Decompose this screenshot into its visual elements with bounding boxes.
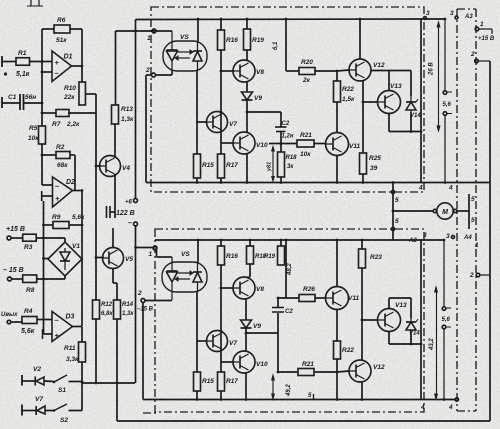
resistor R25 xyxy=(360,153,367,174)
wire rail stub right xyxy=(421,18,445,20)
photodiode inside VS xyxy=(193,50,202,52)
resistor R6 xyxy=(42,28,54,30)
resistor R18 bottom xyxy=(247,246,254,264)
wire xyxy=(361,268,363,360)
top rail bottom block xyxy=(155,239,444,241)
wire xyxy=(197,121,207,123)
transistor V10 xyxy=(233,132,255,154)
wire xyxy=(336,310,338,342)
wire xyxy=(95,319,97,383)
measure 26V arrow xyxy=(438,23,440,130)
capacitor C1 xyxy=(1,97,3,108)
resistor R23 xyxy=(359,249,366,268)
resistor R21 bottom xyxy=(278,371,298,373)
pin 2 bottom optocoupler xyxy=(141,299,145,303)
wire xyxy=(116,319,118,421)
wire xyxy=(73,326,83,328)
resistor R13 xyxy=(112,105,119,124)
wire xyxy=(197,240,199,262)
resistor R15 xyxy=(194,154,201,178)
top rail xyxy=(136,18,422,21)
resistor R18 top xyxy=(278,152,285,177)
diode V14 zener bottom xyxy=(410,298,412,318)
connector pins 5 6 bottom xyxy=(443,240,445,307)
wire xyxy=(72,65,83,67)
wire xyxy=(336,71,338,81)
wire xyxy=(388,71,390,91)
wire xyxy=(42,71,52,73)
resistor R10 xyxy=(79,82,86,105)
wire xyxy=(73,190,83,192)
wire xyxy=(197,19,199,41)
resistor R15 bottom xyxy=(194,372,201,391)
op-amp D3 xyxy=(52,312,73,342)
chain border A4 bottom xyxy=(457,410,476,412)
resistor R17 bottom xyxy=(218,372,225,391)
wire xyxy=(220,133,222,143)
optocoupler VS bottom xyxy=(162,262,207,292)
transistor V10 bottom xyxy=(233,351,255,373)
diode V14 zener xyxy=(410,71,412,97)
pin 1 top optocoupler xyxy=(152,29,156,33)
wire xyxy=(142,303,144,400)
wire xyxy=(277,333,279,372)
resistor R5 xyxy=(39,126,46,144)
chain border right inner xyxy=(456,9,458,411)
LED inside VS bottom xyxy=(171,257,173,271)
wire xyxy=(74,155,76,191)
capacitor C2 top xyxy=(280,112,282,127)
node 122V negative xyxy=(134,222,138,226)
wire xyxy=(245,373,247,400)
wire xyxy=(246,50,248,60)
resistor R4 xyxy=(22,317,37,324)
transistor V7 top block xyxy=(207,112,228,133)
wire xyxy=(220,352,222,362)
resistor R2 xyxy=(42,154,56,156)
switch S2 xyxy=(45,410,54,412)
wire xyxy=(95,113,97,300)
transistor V11 bottom xyxy=(326,287,349,310)
wire xyxy=(336,156,338,183)
transistor V13 xyxy=(378,91,401,114)
resistor R16 xyxy=(218,30,225,50)
wire xyxy=(246,154,248,183)
transistor V4 xyxy=(96,165,101,167)
diode V7 xyxy=(21,405,23,416)
connector pins 5 6 top xyxy=(444,19,446,91)
resistor R22 bottom xyxy=(334,341,341,359)
wire xyxy=(112,269,114,284)
wire xyxy=(41,62,43,127)
wire from pin1 row xyxy=(115,31,117,105)
wire xyxy=(388,298,390,309)
resistor R14 xyxy=(114,300,121,319)
wire xyxy=(117,420,490,422)
transistor V5 xyxy=(96,257,104,259)
transistor V8 xyxy=(233,60,255,82)
wire xyxy=(245,328,247,351)
wire xyxy=(220,265,222,372)
wire xyxy=(81,362,83,411)
op-amp D2 xyxy=(53,177,73,207)
resistor R26 xyxy=(278,297,299,299)
wire node to RC xyxy=(247,111,281,113)
wire xyxy=(82,382,135,384)
resistor R3 xyxy=(23,234,37,241)
resistor R9 xyxy=(44,224,54,226)
resistor R16 bottom xyxy=(218,246,225,265)
LED inside VS xyxy=(171,31,173,50)
chain border bottom xyxy=(143,412,156,414)
wire node row bottom xyxy=(246,332,278,334)
wire xyxy=(44,258,49,260)
wire xyxy=(196,292,198,372)
transistor V13 bottom xyxy=(378,309,401,332)
wire xyxy=(30,61,53,63)
rectifier bridge V1 xyxy=(48,242,82,276)
diode V9 xyxy=(242,92,253,100)
wire xyxy=(30,0,32,6)
wire xyxy=(81,259,83,326)
chain border right outer xyxy=(475,9,477,411)
wire xyxy=(114,174,116,218)
resistor R19 xyxy=(244,29,251,50)
wire xyxy=(36,237,65,239)
module border A2 bottom xyxy=(155,229,424,412)
module border A1 top xyxy=(151,7,424,192)
wire xyxy=(246,100,248,132)
arrows coupling xyxy=(178,51,190,53)
wire right rail xyxy=(420,19,422,183)
capacitor 122V tap xyxy=(106,206,108,218)
bottom rail top block xyxy=(146,182,490,184)
capacitor bar at D2 input xyxy=(41,191,43,201)
photodiode inside VS bottom xyxy=(193,271,202,273)
resistor R21 xyxy=(269,143,297,145)
transistor V7 bottom block xyxy=(207,331,228,352)
resistor R8 xyxy=(23,275,37,283)
wire xyxy=(468,194,470,229)
measure arrow left of R18 xyxy=(272,148,274,181)
wire xyxy=(81,29,83,66)
resistor R19 bottom xyxy=(278,246,285,265)
resistor R11 xyxy=(79,342,86,362)
measure 6V line xyxy=(285,19,287,71)
wire xyxy=(196,71,198,154)
transistor V12 bottom xyxy=(349,360,371,382)
wire xyxy=(145,75,147,183)
op-amp D1 xyxy=(52,51,72,82)
wire xyxy=(362,80,364,153)
wire right rail bottom xyxy=(420,240,422,400)
wire xyxy=(37,319,52,321)
node 122V positive xyxy=(135,20,137,199)
wire R10 hook xyxy=(86,93,97,95)
resistor R20 xyxy=(286,70,299,72)
pin 1 bottom optocoupler xyxy=(153,246,157,250)
capacitor C2 bottom xyxy=(277,313,279,333)
wire xyxy=(249,264,251,277)
transistor V12 xyxy=(349,59,371,81)
switch S1 xyxy=(44,380,54,383)
diode V2 xyxy=(21,375,23,386)
wire xyxy=(392,183,394,241)
node inverting input xyxy=(41,29,43,62)
wire xyxy=(41,144,43,185)
pin 2 top optocoupler xyxy=(152,73,156,77)
wire xyxy=(410,334,412,344)
measure 43V arrow bottom xyxy=(436,288,438,398)
capacitor input filter xyxy=(43,320,45,335)
transistor V11 xyxy=(326,133,349,156)
chain border A3 top xyxy=(457,8,476,10)
transistor V8 bottom xyxy=(233,277,255,299)
resistor R1 xyxy=(16,58,30,66)
wire xyxy=(489,61,491,421)
measure 48V line xyxy=(285,240,287,298)
motor M xyxy=(393,210,434,212)
resistor R7 xyxy=(42,112,56,114)
diode V9 bottom xyxy=(241,320,252,328)
wire xyxy=(43,201,45,320)
resistor R22 xyxy=(334,81,341,102)
wire xyxy=(114,124,116,158)
input terminal X1 xyxy=(1,56,3,67)
wire xyxy=(42,184,53,186)
measure 49V line bottom xyxy=(272,376,274,398)
arrows coupling bottom xyxy=(178,272,190,274)
wire xyxy=(410,112,412,132)
resistor R17 xyxy=(218,154,225,178)
wire xyxy=(220,50,222,154)
bottom rail bottom block xyxy=(143,399,455,401)
wire xyxy=(37,278,65,280)
optocoupler VS top xyxy=(163,41,207,71)
resistor R12 xyxy=(93,300,100,319)
